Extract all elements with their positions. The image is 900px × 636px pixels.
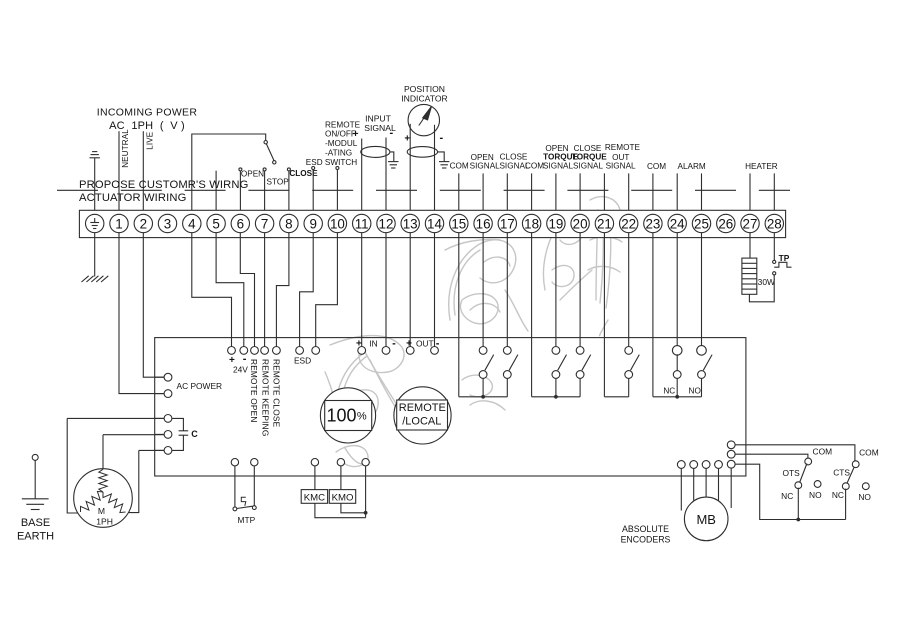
bus COM 21-22: [604, 396, 628, 398]
wire terminal 25 up: [701, 173, 703, 214]
wire terminal 12 down: [385, 233, 387, 347]
label + IN -: [356, 338, 396, 350]
svg-text:REMOTE OPEN: REMOTE OPEN: [249, 359, 259, 423]
terminal 2: [134, 214, 152, 232]
switch alarm NC 24: [672, 346, 682, 397]
label NO: [689, 387, 701, 396]
node MTP b: [251, 459, 258, 477]
label COM 15: [450, 162, 469, 171]
svg-text:SIGNAL: SIGNAL: [470, 162, 500, 171]
label AC POWER: [177, 381, 223, 391]
terminal 22: [620, 214, 638, 232]
terminal 21: [595, 214, 613, 232]
terminal 19: [547, 214, 565, 232]
node KMC: [311, 459, 318, 477]
svg-text:+: +: [406, 339, 412, 350]
wire terminal 22 up: [628, 173, 630, 214]
switch OTS: [795, 458, 812, 521]
node NO OTS: [814, 481, 821, 488]
label TP: [779, 253, 790, 263]
wire terminal 22 down: [628, 233, 630, 347]
wire terminal 27 to heater: [749, 233, 751, 258]
svg-text:26: 26: [718, 216, 733, 231]
wire terminal 17 down: [506, 233, 508, 347]
label REMOTE ON/OFF -MODUL -ATING: [325, 121, 361, 158]
motor brake MB: [684, 497, 728, 541]
svg-text:INPUT: INPUT: [365, 114, 392, 124]
svg-text:17: 17: [500, 216, 515, 231]
svg-text:1: 1: [115, 216, 122, 231]
terminal 18: [522, 214, 540, 232]
svg-text:REMOTE KEEPING: REMOTE KEEPING: [260, 359, 270, 436]
terminal 5: [207, 214, 225, 232]
wire terminal 13 down: [409, 233, 411, 347]
contactor KMO: [329, 476, 355, 504]
svg-text:NC: NC: [781, 491, 793, 501]
terminal 20: [571, 214, 589, 232]
svg-text:3: 3: [164, 216, 171, 231]
node minus 24V: [240, 347, 248, 355]
wire terminal 10 jog: [316, 233, 338, 347]
label REMOTE KEEPING vertical: [260, 359, 270, 436]
label STOP: [267, 178, 290, 187]
wire terminal 11 up: [361, 139, 363, 215]
svg-text:13: 13: [403, 216, 418, 231]
svg-text:15: 15: [451, 216, 466, 231]
svg-text:+: +: [353, 129, 359, 140]
wire C-mid to motor top: [103, 435, 164, 469]
svg-text:9: 9: [309, 216, 316, 231]
label CTS: [833, 468, 850, 478]
label REMOTE OUT SIGNAL 21: [605, 143, 641, 171]
svg-text:NC: NC: [832, 490, 844, 500]
svg-text:19: 19: [548, 216, 563, 231]
svg-text:-: -: [243, 353, 247, 365]
label NC OTS: [781, 491, 793, 501]
label REMOTE CLOSE vertical: [272, 359, 282, 428]
node R3: [727, 460, 845, 519]
wire terminal 19 down: [555, 233, 557, 347]
label COM CTS: [859, 448, 879, 458]
label ABSOLUTE ENCODERS: [621, 524, 671, 545]
svg-text:ABSOLUTE: ABSOLUTE: [622, 524, 669, 534]
svg-text:20: 20: [573, 216, 588, 231]
node KM common: [362, 459, 369, 477]
terminal 10: [328, 214, 346, 232]
label NC CTS: [832, 490, 844, 500]
earth wire below ground terminal: [94, 233, 96, 277]
svg-text:+: +: [404, 134, 410, 145]
label INPUT SIGNAL: [364, 114, 396, 134]
shield ellipse OUT: [407, 147, 437, 158]
node IN plus: [358, 347, 366, 355]
wire terminal 15 down: [458, 233, 460, 397]
switch open-signal 16: [479, 347, 494, 397]
wire terminal 23 down: [652, 233, 654, 397]
node OUT minus: [431, 347, 439, 355]
svg-text:OUT: OUT: [416, 338, 434, 348]
svg-text:11: 11: [355, 216, 369, 231]
shield ground IN: [388, 152, 398, 168]
svg-text:ACTUATOR WIRING: ACTUATOR WIRING: [79, 192, 187, 204]
wire terminal 4 to selector: [192, 134, 266, 214]
actuator enclosure box: [155, 338, 746, 476]
terminal 13: [401, 214, 419, 232]
svg-text:-: -: [389, 127, 393, 139]
customer/actuator divider line: [57, 189, 790, 191]
svg-text:4: 4: [188, 216, 196, 231]
shield ground OUT: [438, 152, 450, 168]
wire terminal 20 up: [579, 173, 581, 214]
svg-text:24: 24: [670, 216, 685, 231]
svg-text:2: 2: [140, 216, 147, 231]
capacitor C1: [172, 418, 188, 450]
label INCOMING POWER: [97, 107, 198, 133]
svg-text:SIGNAL: SIGNAL: [543, 162, 573, 171]
svg-text:NO: NO: [689, 387, 701, 396]
label HEATER: [745, 162, 778, 171]
svg-text:OPEN: OPEN: [241, 170, 264, 179]
node OUT plus: [406, 347, 414, 355]
terminal 16: [474, 214, 492, 232]
node REMOTE OPEN: [251, 347, 259, 355]
label 30W: [758, 277, 775, 287]
switch CTS: [842, 461, 859, 520]
svg-text:16: 16: [476, 216, 491, 231]
terminal earth: [86, 214, 104, 232]
shield ellipse IN: [361, 146, 390, 157]
switch alarm NO 25: [697, 346, 712, 397]
svg-text:LIVE: LIVE: [146, 132, 155, 150]
svg-text:CTS: CTS: [833, 468, 850, 478]
label PROPOSE CUSTOMR'S WIRNG: [79, 179, 248, 191]
svg-text:8: 8: [285, 216, 292, 231]
contact CLOSE: [287, 168, 290, 215]
svg-text:OTS: OTS: [782, 468, 800, 478]
node MTP a: [231, 459, 238, 477]
earth symbol above ground terminal: [90, 152, 100, 215]
svg-text:POSITION: POSITION: [404, 84, 445, 94]
svg-text:ESD SWITCH: ESD SWITCH: [306, 158, 357, 167]
label CLOSE SIGNAL 17: [499, 153, 529, 171]
motor M1: [74, 469, 133, 528]
svg-text:M: M: [98, 506, 105, 516]
wire terminal 21 up: [603, 173, 605, 214]
svg-text:CLOSE: CLOSE: [500, 153, 528, 162]
svg-text:TORQUE: TORQUE: [572, 153, 607, 162]
label BASE EARTH: [17, 517, 54, 543]
selector switch blade: [266, 144, 276, 164]
svg-text:KMC: KMC: [304, 493, 325, 504]
svg-text:28: 28: [767, 216, 782, 231]
terminal 8: [280, 214, 298, 232]
wire terminal 8 jog: [276, 233, 289, 347]
svg-text:COM: COM: [859, 448, 879, 458]
wire terminal 27 up: [749, 173, 751, 214]
label POSITION INDICATOR: [401, 84, 447, 104]
svg-text:INCOMING POWER: INCOMING POWER: [97, 107, 198, 119]
svg-text:NEUTRAL: NEUTRAL: [121, 129, 130, 168]
wire terminal 12 up: [385, 138, 387, 215]
terminal 26: [717, 214, 735, 232]
label REMOTE OPEN vertical: [249, 359, 259, 423]
svg-text:22: 22: [621, 216, 636, 231]
node C mid: [155, 431, 172, 439]
svg-text:%: %: [357, 411, 367, 423]
node C top: [155, 415, 172, 423]
label + OUT -: [406, 338, 440, 350]
svg-text:-: -: [439, 132, 443, 144]
wire terminal 17 up: [506, 173, 508, 214]
wire terminal 16 up: [482, 173, 484, 214]
wire KMC bottom: [315, 503, 366, 517]
bus COM 18-20: [532, 395, 581, 399]
svg-text:ESD: ESD: [294, 356, 311, 366]
node R2: [727, 450, 808, 458]
label OPEN: [241, 170, 264, 179]
ground hatch: [82, 276, 109, 282]
terminal 23: [644, 214, 662, 232]
wire terminal 11 down: [361, 233, 363, 347]
label MTP: [238, 515, 256, 525]
label LIVE: [146, 132, 155, 150]
svg-text:-ATING: -ATING: [325, 149, 352, 158]
svg-text:18: 18: [524, 216, 539, 231]
wire terminal 24 down: [676, 233, 678, 347]
label COM OTS: [813, 447, 833, 457]
wire terminal 14 down: [434, 233, 436, 347]
node REMOTE KEEPING: [261, 347, 269, 355]
wire terminal 14 up: [434, 125, 436, 215]
terminal 24: [668, 214, 686, 232]
switch open-torque 19: [552, 347, 567, 397]
svg-text:CLOSE: CLOSE: [574, 144, 602, 153]
svg-text:COM: COM: [450, 162, 469, 171]
terminal 14: [425, 214, 443, 232]
base earth symbol: [22, 454, 49, 509]
svg-text:-: -: [392, 338, 396, 350]
terminal 7: [255, 214, 273, 232]
svg-text:REMOTE: REMOTE: [605, 143, 641, 152]
node AC POWER 1: [155, 373, 172, 381]
wire terminal 25 down: [701, 233, 703, 347]
label ESD: [294, 356, 311, 366]
svg-text:5: 5: [212, 216, 219, 231]
label ACTUATOR WIRING: [79, 192, 187, 204]
wire terminal 5 jog: [216, 233, 244, 347]
svg-text:NO: NO: [809, 490, 822, 500]
wire terminal 1 up: [118, 131, 120, 214]
wire C-bottom to motor right: [128, 450, 164, 512]
wire C-top to motor loop: [67, 418, 164, 513]
wire terminal 21 down: [603, 233, 605, 397]
wire terminal 2 up: [142, 131, 144, 214]
svg-text:KMO: KMO: [332, 493, 354, 504]
node ESD a: [296, 347, 304, 355]
node IN minus: [382, 347, 390, 355]
terminal 28: [765, 214, 783, 232]
node R1: [727, 441, 855, 462]
contact ESD b: [336, 167, 339, 215]
node NO CTS: [862, 483, 869, 490]
node AC POWER 2: [155, 390, 172, 398]
wire terminal 28 up: [773, 173, 775, 214]
switch MTP: [233, 476, 256, 511]
svg-text:21: 21: [597, 216, 612, 231]
wire KMO bottom: [341, 503, 368, 514]
label CLOSE: [289, 169, 318, 178]
label - terminal 12: [389, 127, 393, 139]
terminal 1: [110, 214, 128, 232]
wire terminal 1 down: [119, 233, 164, 394]
terminal 15: [450, 214, 468, 232]
svg-text:25: 25: [694, 216, 709, 231]
svg-text:TP: TP: [779, 253, 790, 263]
contactor KMC: [301, 476, 327, 504]
contact ESD a: [312, 167, 315, 215]
label NEUTRAL: [121, 129, 130, 168]
encoder nodes: [677, 461, 722, 511]
svg-text:COM: COM: [813, 447, 833, 457]
svg-text:REMOTE CLOSE: REMOTE CLOSE: [272, 359, 282, 428]
svg-text:CLOSE: CLOSE: [289, 169, 318, 178]
terminal 3: [158, 214, 176, 232]
wire terminal 2 down: [143, 233, 164, 378]
node REMOTE CLOSE: [273, 347, 281, 355]
svg-text:MTP: MTP: [238, 515, 256, 525]
label +/- 24V: [229, 353, 248, 374]
svg-text:NC: NC: [663, 387, 675, 396]
label M 1PH: [96, 506, 113, 526]
terminal 11: [353, 214, 371, 232]
label OPEN TORQUE SIGNAL 19: [543, 144, 579, 171]
svg-text:14: 14: [427, 216, 442, 231]
svg-text:-MODUL: -MODUL: [325, 139, 358, 148]
label COM 18: [525, 162, 544, 171]
svg-text:OPEN: OPEN: [545, 144, 568, 153]
svg-text:ENCODERS: ENCODERS: [621, 535, 671, 545]
watermark: [325, 197, 622, 467]
dial 100%: [320, 388, 375, 443]
wire terminal 18 up: [531, 173, 533, 214]
svg-text:-: -: [436, 338, 440, 350]
svg-text:AC POWER: AC POWER: [177, 381, 223, 391]
label - terminal 14: [439, 132, 443, 144]
svg-text:27: 27: [743, 216, 758, 231]
svg-text:PROPOSE CUSTOMR'S WIRNG: PROPOSE CUSTOMR'S WIRNG: [79, 179, 248, 191]
label + terminal 11: [353, 129, 359, 140]
terminal 12: [377, 214, 395, 232]
wire KM common down: [365, 476, 367, 518]
svg-text:NO: NO: [858, 492, 871, 502]
svg-text:REMOTE: REMOTE: [399, 402, 446, 414]
wire terminal 19 up: [555, 173, 557, 214]
svg-text:COM: COM: [647, 162, 666, 171]
svg-text:12: 12: [379, 216, 394, 231]
heater resistor: [742, 258, 757, 294]
svg-text:ON/OFF: ON/OFF: [325, 130, 356, 139]
selector switch pivot: [264, 141, 267, 144]
svg-text:30W: 30W: [758, 277, 775, 287]
position indicator gauge: [408, 104, 439, 135]
wire terminal 15 up: [458, 173, 460, 214]
wire terminal 23 up: [652, 173, 654, 214]
svg-text:+: +: [356, 339, 362, 350]
bus COM 23-25: [653, 395, 702, 399]
wire terminal 5 up: [215, 171, 217, 215]
label ESD SWITCH: [306, 158, 357, 167]
svg-text:SIGNAL: SIGNAL: [573, 162, 603, 171]
label ALARM: [677, 162, 705, 171]
svg-text:7: 7: [261, 216, 268, 231]
dial REMOTE/LOCAL: [394, 387, 451, 444]
label COM 23: [647, 162, 666, 171]
label OPEN SIGNAL 16: [470, 153, 500, 171]
wire heater bottom: [749, 275, 774, 302]
svg-text:HEATER: HEATER: [745, 162, 778, 171]
svg-text:10: 10: [330, 216, 345, 231]
wire terminal 18 down: [531, 233, 533, 397]
label OTS: [782, 468, 800, 478]
node KMO: [337, 459, 344, 477]
svg-text:IN: IN: [369, 338, 377, 348]
svg-text:1PH: 1PH: [96, 516, 113, 526]
switch close-torque 20: [576, 347, 591, 397]
terminal strip: [79, 210, 785, 237]
wire terminal 24 up: [676, 173, 678, 214]
svg-text:STOP: STOP: [267, 178, 290, 187]
svg-text:6: 6: [237, 216, 244, 231]
wire terminal 7 down: [264, 233, 266, 347]
contact OPEN: [239, 168, 242, 215]
node plus 24V: [228, 347, 236, 355]
wire terminal 20 down: [579, 233, 581, 347]
label C: [191, 429, 198, 439]
terminal 4: [183, 214, 201, 232]
contact STOP: [263, 168, 266, 215]
label NO OTS: [809, 490, 822, 500]
terminal 27: [741, 214, 759, 232]
label + terminal 13: [404, 134, 410, 145]
thermal protector TP: [773, 233, 792, 275]
switch close-signal 17: [503, 347, 518, 397]
svg-text:SIGNAL: SIGNAL: [606, 161, 636, 170]
label CLOSE TORQUE SIGNAL 20: [572, 144, 607, 171]
wire terminal 9 jog: [300, 233, 314, 347]
terminal 9: [304, 214, 322, 232]
svg-text:23: 23: [645, 216, 660, 231]
label NC: [663, 387, 675, 396]
svg-text:ALARM: ALARM: [677, 162, 705, 171]
svg-text:INDICATOR: INDICATOR: [401, 94, 447, 104]
svg-text:/LOCAL: /LOCAL: [402, 416, 441, 428]
label NO CTS: [858, 492, 871, 502]
wire terminal 6 jog: [240, 233, 254, 347]
svg-text:BASE: BASE: [21, 517, 50, 529]
svg-text:MB: MB: [696, 512, 716, 527]
wire terminal 13 up: [409, 124, 411, 215]
terminal 17: [498, 214, 516, 232]
svg-text:EARTH: EARTH: [17, 531, 54, 543]
svg-text:OPEN: OPEN: [471, 153, 494, 162]
wire terminal 4 jog: [192, 233, 232, 347]
terminal 25: [692, 214, 710, 232]
svg-text:C: C: [191, 429, 198, 439]
node C bottom: [155, 447, 172, 455]
svg-text:24V: 24V: [233, 364, 248, 374]
node ESD b: [312, 347, 320, 355]
bus COM 15-17: [459, 395, 508, 399]
